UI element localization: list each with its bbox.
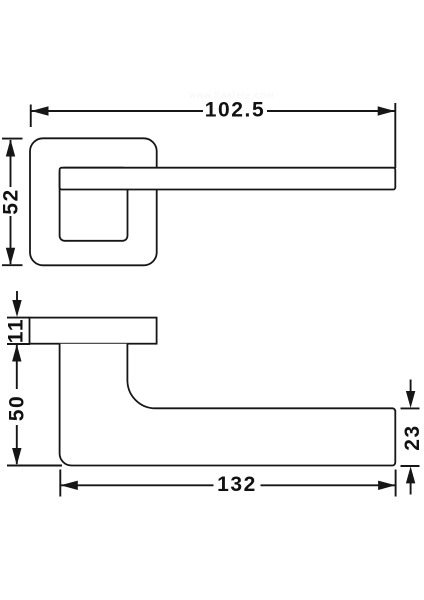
dimension 23 extension tick top (401, 407, 420, 409)
faint watermark (188, 90, 275, 100)
handle neck square (top view) (60, 168, 128, 241)
dimension 102.5 extension line left (30, 105, 32, 128)
dimension line 102.5 (31, 106, 395, 115)
svg-text:102.5: 102.5 (205, 99, 266, 122)
dimension label 52 (0, 188, 23, 215)
rosette side view (30, 318, 157, 344)
dimension 11 extension tick top (7, 317, 30, 319)
lever bar (top view) (60, 168, 396, 190)
dimension 23 extension tick bottom (401, 465, 420, 467)
dimension label 102.5 (205, 99, 266, 122)
svg-text:www.haefele.com: www.haefele.com (188, 90, 275, 100)
dimension line 132 (61, 481, 396, 490)
dimension 102.5 extension line right (394, 103, 396, 168)
svg-text:52: 52 (0, 188, 23, 215)
dimension label 23 (401, 424, 424, 451)
dimension line 52 (6, 139, 15, 265)
svg-text:23: 23 (401, 424, 424, 451)
dimension 11 / 50 shared tick (7, 343, 30, 345)
dimension 52 extension tick bottom (2, 264, 23, 266)
dimension label 132 (217, 473, 257, 496)
rosette top view (30, 138, 157, 265)
lever handle profile (side view) (60, 344, 396, 466)
dimension label 50 (6, 395, 29, 422)
dimension 132 extension line left (59, 470, 61, 497)
dimension 52 extension tick top (2, 138, 23, 140)
dimension 132 extension line right (395, 470, 397, 497)
dimension 23 arrow above (406, 380, 415, 409)
dimension 11 arrow above (12, 291, 21, 317)
dimension line 50 (12, 344, 21, 465)
svg-text:11: 11 (5, 318, 28, 343)
dimension 50 extension tick bottom (7, 465, 62, 467)
svg-text:132: 132 (217, 473, 257, 496)
svg-text:50: 50 (6, 395, 29, 422)
dimension label 11 (5, 318, 28, 343)
dimension 23 arrow below (406, 466, 415, 494)
